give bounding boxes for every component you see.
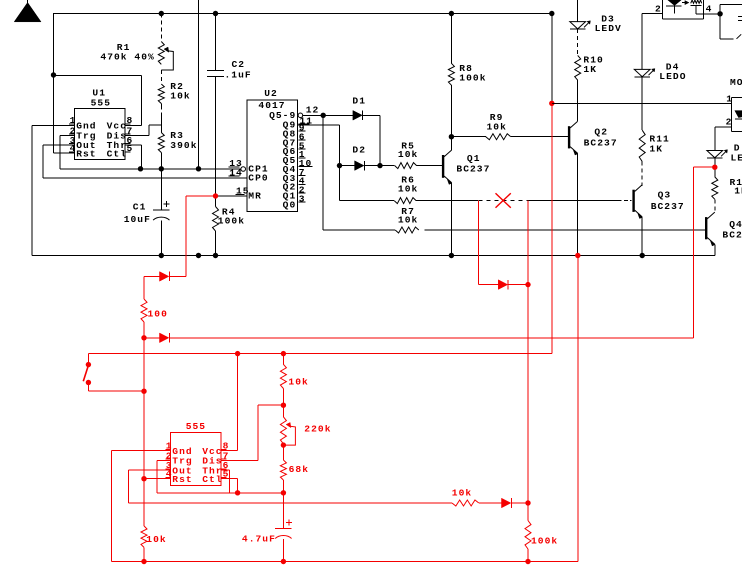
wire U2 pin11 Q9: [298, 125, 340, 201]
svg-text:10k: 10k: [452, 487, 472, 498]
node red Thr row junction: [281, 490, 286, 495]
capacitor red 4.7uF: [242, 493, 292, 564]
resistor R8 100k: [448, 11, 486, 137]
svg-text:Q4: Q4: [729, 219, 742, 230]
wire U1 Out pin 3 to CP0 row: [43, 145, 247, 178]
resistor red 10k lower-left: [141, 479, 167, 562]
resistor R3 390k: [158, 130, 197, 169]
svg-text:100k: 100k: [218, 216, 245, 227]
svg-text:4: 4: [706, 3, 713, 14]
svg-text:.1uF: .1uF: [225, 70, 252, 81]
resistor R11 1K: [639, 130, 670, 186]
node CP1 row junctions: [138, 166, 201, 171]
svg-text:Ctl: Ctl: [202, 474, 222, 485]
svg-text:Q0: Q0: [283, 199, 297, 210]
svg-text:10k: 10k: [398, 149, 418, 160]
resistor R4 100k: [213, 196, 246, 256]
optocoupler MOC1: [655, 0, 712, 19]
svg-text:10k: 10k: [487, 121, 507, 132]
capacitor C1 10uF polarized: [124, 169, 170, 256]
svg-text:MR: MR: [248, 190, 262, 201]
diode red D9: [498, 280, 530, 290]
node pin12 junction: [321, 113, 326, 118]
wire opto2 pin1 row: [552, 102, 732, 104]
svg-text:10k: 10k: [170, 90, 190, 101]
svg-text:LEDO: LEDO: [659, 71, 686, 82]
wire red 555 Out row: [128, 470, 452, 503]
diode D2: [340, 144, 381, 170]
wire red to LED D5 cathode: [694, 165, 718, 338]
ground bus bottom rail: [32, 255, 715, 257]
svg-text:BC237: BC237: [584, 137, 618, 148]
resistor red 100k: [525, 503, 558, 564]
transistor Q4 BC237: [705, 212, 742, 255]
wire red Vcc to 555 pin8: [221, 354, 237, 451]
capacitor C2 .1uF: [207, 11, 252, 196]
wire long vertical rail: [198, 0, 200, 169]
diode red D6: [144, 272, 186, 299]
svg-text:BC2: BC2: [722, 230, 742, 241]
wire to opto pin1 row: [551, 14, 553, 104]
resistor red 100: [141, 299, 168, 338]
svg-text:470k 40%: 470k 40%: [100, 52, 154, 63]
svg-text:220k: 220k: [304, 423, 331, 434]
transistor Q1 BC237: [442, 137, 491, 256]
svg-text:BC237: BC237: [651, 201, 685, 212]
svg-text:10k: 10k: [146, 534, 166, 545]
node red tap junction: [549, 101, 554, 106]
resistor R10 1K: [575, 55, 604, 112]
wire U1 Gnd pin 1 to ground rail: [32, 125, 75, 255]
wire red cut-tap left: [479, 201, 499, 285]
wire red switch row: [88, 354, 552, 363]
resistor R6 10k: [340, 175, 478, 204]
svg-text:1: 1: [726, 94, 733, 105]
wire red 555 Trg: [157, 460, 284, 492]
LED D5: [707, 142, 742, 177]
diode D1: [352, 96, 380, 166]
svg-text:Q3: Q3: [658, 190, 672, 201]
IC U2 4017 counter: [229, 88, 320, 212]
LED D4 LEDO: [634, 14, 686, 131]
potentiometer red 220k: [280, 405, 331, 445]
resistor red 10k out row: [452, 487, 502, 506]
svg-text:390k: 390k: [170, 140, 197, 151]
svg-text:1K: 1K: [734, 185, 742, 196]
optocoupler MOC2: [726, 77, 742, 132]
svg-text:10k: 10k: [398, 183, 418, 194]
wire red right riser: [575, 253, 580, 562]
resistor red 68k: [280, 445, 309, 493]
pin bubble CP1: [241, 167, 246, 172]
node red pot bottom junction: [281, 442, 286, 447]
svg-text:100k: 100k: [459, 73, 486, 84]
LED D3 LEDV: [570, 0, 622, 55]
svg-text:2: 2: [655, 3, 662, 14]
resistor R2 10k: [158, 81, 190, 132]
wire U1 Thr pin 6: [125, 145, 141, 168]
svg-text:12: 12: [306, 105, 320, 116]
resistor R9 10k: [451, 112, 568, 140]
node red Rst junction: [141, 476, 146, 481]
node D2 junctions: [337, 163, 383, 168]
svg-text:555: 555: [186, 421, 206, 432]
svg-text:3: 3: [299, 193, 306, 204]
node Q1 collector junction: [449, 134, 454, 139]
svg-text:10k: 10k: [288, 376, 308, 387]
diode red D8: [502, 498, 531, 508]
svg-text:4.7uF: 4.7uF: [242, 533, 276, 544]
wire red cut-tap right rail: [527, 201, 529, 503]
svg-text:MO: MO: [730, 77, 742, 88]
transistor Q3 BC237: [632, 185, 684, 256]
wire red MR tap: [186, 193, 218, 276]
wire U2 pin12 Q5-9 with bubble: [298, 113, 353, 118]
svg-text:Q2: Q2: [594, 126, 608, 137]
wire Vcc top bus: [53, 13, 552, 15]
svg-text:100k: 100k: [531, 535, 558, 546]
svg-text:Ctl: Ctl: [107, 148, 127, 159]
svg-text:10k: 10k: [398, 214, 418, 225]
svg-text:LEDV: LEDV: [595, 23, 622, 34]
broken wire dashed section: [479, 200, 528, 202]
resistor R5 10k: [380, 140, 442, 168]
svg-text:5: 5: [127, 143, 134, 154]
resistor R12 1K: [712, 177, 742, 213]
wire opto2 pin2 to LED D5: [715, 127, 732, 151]
svg-text:BC237: BC237: [456, 164, 490, 175]
svg-text:CP0: CP0: [248, 173, 268, 184]
wire U2 MR pin15 black stub: [216, 195, 247, 197]
cut mark X: [496, 193, 511, 208]
svg-text:D1: D1: [352, 96, 366, 107]
wire U1 Dis pin 7: [125, 125, 161, 135]
transistor Q2 BC237: [568, 112, 618, 256]
diode red D7: [144, 333, 694, 343]
svg-text:1K: 1K: [649, 143, 663, 154]
wire red 555 Dis: [221, 405, 283, 460]
svg-text:Rst: Rst: [76, 148, 96, 159]
svg-text:2: 2: [726, 116, 733, 127]
IC U3 555 red timer: [165, 421, 229, 486]
node red diode row junction: [141, 335, 146, 340]
svg-text:D2: D2: [352, 144, 366, 155]
node red switch row junctions: [235, 351, 286, 356]
corner marker triangle: [14, 0, 41, 22]
wire red main rail down: [143, 338, 145, 479]
resistor R7 10k: [395, 206, 706, 233]
svg-text:1K: 1K: [583, 64, 597, 75]
wire red 555 Ctl: [221, 479, 240, 496]
svg-text:10uF: 10uF: [124, 214, 151, 225]
svg-text:LE: LE: [731, 152, 742, 163]
switch S1: [83, 362, 144, 391]
wire U1 Trg pin 2 to CP1 row: [60, 135, 241, 168]
node ground rail junctions: [159, 253, 645, 258]
wire red 555 Rst: [144, 478, 171, 480]
potentiometer R1 470k 40%: [100, 11, 173, 84]
wire red 555 Gnd: [112, 451, 171, 562]
svg-text:Q1: Q1: [467, 153, 481, 164]
wire pin12 to R7 row: [323, 115, 395, 230]
wire left rail to U1 Rst: [54, 13, 75, 153]
node Vcc-U1 junction: [51, 72, 56, 77]
svg-text:Rst: Rst: [172, 474, 192, 485]
svg-text:C2: C2: [232, 59, 246, 70]
svg-text:C1: C1: [133, 202, 147, 213]
svg-text:555: 555: [91, 98, 111, 109]
wire red bottom bus: [112, 559, 579, 564]
wire red vcc drop from Q2 tap: [551, 103, 553, 353]
resistor red 10k mid: [280, 354, 308, 406]
wire opto1 pin4: [704, 4, 742, 39]
svg-text:68k: 68k: [289, 464, 309, 475]
svg-text:100: 100: [148, 308, 168, 319]
wire red 555 Thr: [221, 470, 229, 493]
IC U1 555 timer: [69, 87, 133, 159]
wire U1 Vcc pin 8: [54, 76, 142, 126]
svg-text:U2: U2: [264, 88, 278, 99]
node top bus right junction: [549, 11, 554, 16]
wire to Q3 base: [528, 200, 632, 202]
node red pot top junction: [281, 403, 286, 408]
node red rail junction: [141, 389, 146, 394]
